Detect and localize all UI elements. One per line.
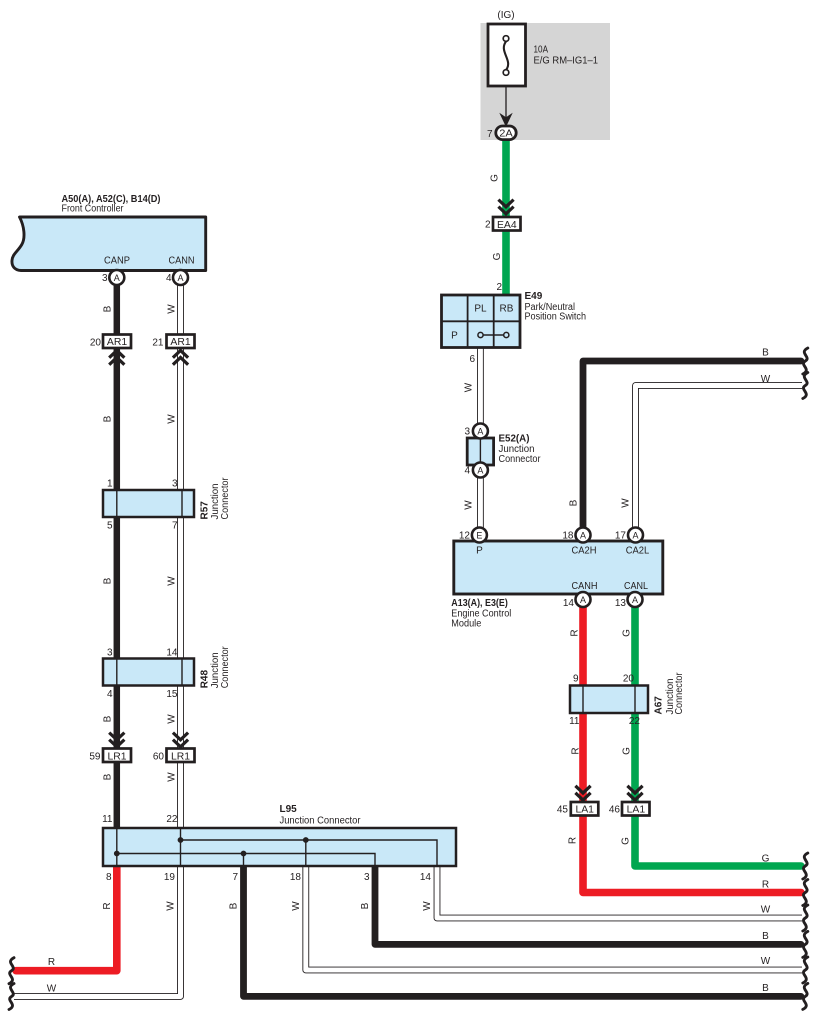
- pin 18 circle A: [576, 528, 591, 543]
- wire: B black ECM pin18 up and right to edge break: [583, 361, 801, 534]
- svg-text:7: 7: [487, 129, 493, 140]
- pin 13 circle A: [628, 592, 643, 607]
- svg-text:AR1: AR1: [107, 337, 127, 348]
- svg-text:A: A: [114, 273, 120, 283]
- svg-text:W: W: [166, 901, 177, 911]
- svg-text:A: A: [632, 530, 638, 540]
- junction dot pin22/bus: [178, 837, 184, 843]
- svg-text:18: 18: [562, 531, 574, 542]
- svg-text:Front Controller: Front Controller: [62, 204, 125, 215]
- break left W 996: [9, 984, 14, 1010]
- svg-text:B: B: [762, 348, 769, 359]
- svg-text:18: 18: [290, 872, 302, 883]
- break right W 969: [803, 957, 808, 983]
- svg-text:22: 22: [629, 716, 641, 727]
- svg-text:B: B: [102, 773, 113, 780]
- svg-text:B: B: [102, 715, 113, 722]
- connector 59 LR1: [103, 749, 131, 763]
- svg-text:59: 59: [89, 752, 101, 763]
- svg-text:3: 3: [172, 479, 178, 490]
- svg-text:CANN: CANN: [169, 256, 195, 267]
- svg-text:R: R: [568, 837, 579, 844]
- pin 7 oval 2A: [496, 126, 516, 140]
- svg-text:4: 4: [464, 466, 470, 477]
- solid arrow into pin 7: [499, 113, 512, 127]
- svg-text:A: A: [477, 465, 483, 475]
- wire: W white E52 pin4 to ECM pin12: [477, 475, 484, 534]
- break left R 970.7: [9, 958, 14, 984]
- svg-text:R: R: [102, 902, 113, 909]
- svg-text:E52(A): E52(A): [499, 434, 530, 445]
- svg-text:12: 12: [459, 531, 471, 542]
- svg-text:R: R: [762, 880, 769, 891]
- chevron up into AR1 21: [173, 351, 188, 365]
- svg-text:CANL: CANL: [624, 581, 648, 592]
- svg-text:W: W: [167, 414, 178, 424]
- wire: B black front controller CANP pin3 down to L95 pin11: [114, 284, 121, 828]
- wire: W white E49 pin6 to E52 pin3: [477, 347, 484, 426]
- svg-text:45: 45: [557, 805, 569, 816]
- svg-text:LR1: LR1: [171, 751, 190, 762]
- svg-text:3: 3: [107, 648, 113, 659]
- svg-text:8: 8: [106, 872, 112, 883]
- svg-text:E/G RM–IG1–1: E/G RM–IG1–1: [534, 56, 599, 67]
- connector 21 AR1: [167, 335, 195, 349]
- junction dot pin11/bus: [114, 851, 120, 857]
- svg-text:A13(A), E3(E): A13(A), E3(E): [451, 598, 508, 609]
- svg-text:W: W: [621, 498, 632, 508]
- wire: B black L95 pin7 down and right to edge break: [244, 866, 802, 996]
- svg-text:G: G: [622, 747, 633, 755]
- wire: W white L95 pin19 down and left to edge break: [14, 866, 181, 997]
- svg-text:A67: A67: [654, 696, 665, 715]
- pin 4 circle A CANN: [173, 270, 188, 285]
- svg-text:E: E: [476, 530, 482, 540]
- svg-text:9: 9: [573, 674, 579, 685]
- svg-text:W: W: [47, 984, 57, 995]
- svg-text:11: 11: [102, 814, 113, 825]
- svg-text:14: 14: [166, 648, 178, 659]
- wire: G green vertical from 2A to E49 pin2: [502, 136, 510, 296]
- svg-text:B: B: [229, 902, 240, 909]
- svg-text:W: W: [464, 382, 475, 392]
- svg-text:4: 4: [107, 689, 113, 700]
- svg-text:1: 1: [107, 479, 113, 490]
- pin 12 circle E: [472, 528, 487, 543]
- svg-text:14: 14: [563, 598, 575, 609]
- svg-text:B: B: [762, 983, 769, 994]
- svg-text:LR1: LR1: [107, 751, 126, 762]
- connector 60 LR1: [167, 749, 195, 763]
- wire: thin fuse lead: [505, 74, 507, 119]
- internal wire pin22-pin19: [180, 828, 182, 866]
- svg-text:(IG): (IG): [497, 10, 514, 21]
- svg-text:2: 2: [485, 220, 491, 231]
- svg-text:Module: Module: [451, 618, 481, 629]
- svg-text:EA4: EA4: [497, 220, 517, 231]
- wire: R red ECM CANH pin14 down through A67 to LA1 then right edge: [583, 600, 801, 893]
- svg-text:A: A: [580, 595, 586, 605]
- svg-text:W: W: [167, 304, 178, 314]
- svg-text:3: 3: [102, 273, 108, 284]
- ECM A13(A) E3(E) engine control module: [454, 541, 663, 594]
- svg-text:B: B: [569, 499, 580, 506]
- break right B 361: [803, 348, 808, 374]
- svg-text:10A: 10A: [534, 45, 549, 56]
- front controller A50(A) A52(C) B14(D): [12, 217, 206, 271]
- chevron into LA1 45: [575, 786, 590, 800]
- svg-text:Junction Connector: Junction Connector: [280, 816, 362, 827]
- svg-text:R: R: [571, 747, 582, 754]
- svg-text:19: 19: [164, 872, 176, 883]
- svg-text:20: 20: [623, 674, 635, 685]
- svg-text:A: A: [177, 273, 183, 283]
- svg-text:13: 13: [615, 598, 627, 609]
- internal wire to pin7: [243, 854, 245, 867]
- svg-text:15: 15: [166, 689, 178, 700]
- wire: R red L95 pin8 down and left to edge break: [16, 866, 117, 971]
- svg-text:LA1: LA1: [575, 804, 594, 815]
- junction dot pin18/bus: [303, 837, 309, 843]
- svg-text:P: P: [451, 331, 458, 342]
- svg-text:CA2H: CA2H: [572, 546, 597, 557]
- break right W 385.5: [803, 373, 808, 399]
- pin 17 circle A: [628, 528, 643, 543]
- svg-text:L95: L95: [280, 804, 298, 815]
- svg-text:P: P: [476, 546, 483, 557]
- svg-text:B: B: [102, 415, 113, 422]
- svg-text:CA2L: CA2L: [626, 546, 650, 557]
- svg-text:B: B: [762, 931, 769, 942]
- svg-text:W: W: [761, 374, 771, 385]
- connector 46 LA1: [622, 802, 650, 816]
- svg-text:R: R: [570, 629, 581, 636]
- pin 4 circle A of E52: [473, 463, 488, 478]
- svg-text:17: 17: [615, 531, 627, 542]
- svg-text:W: W: [761, 905, 771, 916]
- break right B 944: [803, 931, 808, 957]
- svg-text:Connector: Connector: [220, 646, 231, 689]
- svg-text:7: 7: [172, 521, 178, 532]
- svg-text:A: A: [477, 426, 483, 436]
- break right W 915: [803, 905, 808, 931]
- chevron into LR1 59: [109, 733, 124, 747]
- chevron into LA1 46: [627, 786, 642, 800]
- pin 3 circle A CANP: [109, 270, 124, 285]
- svg-text:E49: E49: [525, 291, 543, 302]
- pin 3 circle A of E52: [473, 424, 488, 439]
- svg-text:W: W: [761, 956, 771, 967]
- internal wire to pin18: [305, 840, 307, 866]
- svg-text:Connector: Connector: [674, 672, 685, 715]
- svg-text:W: W: [167, 576, 178, 586]
- wire: B black L95 pin3 down and right to edge break: [375, 866, 801, 944]
- svg-text:W: W: [167, 714, 178, 724]
- svg-text:Position Switch: Position Switch: [525, 312, 587, 323]
- wire: W white L95 pin18 down and right to edge break: [306, 866, 802, 970]
- internal bus upper W: [181, 840, 438, 866]
- connector 20 AR1: [103, 335, 131, 349]
- svg-text:3: 3: [464, 427, 470, 438]
- wire: G green ECM CANL pin13 down through A67 to LA1 then right edge: [635, 600, 801, 866]
- svg-text:A: A: [580, 530, 586, 540]
- junction connector R48: [103, 659, 194, 686]
- svg-text:14: 14: [420, 872, 432, 883]
- svg-text:3: 3: [364, 872, 370, 883]
- junction connector A67: [570, 686, 648, 714]
- pin 14 circle A: [576, 592, 591, 607]
- svg-text:G: G: [762, 854, 770, 865]
- svg-text:CANH: CANH: [572, 581, 598, 592]
- svg-text:B: B: [102, 305, 113, 312]
- switch E49 park/neutral position switch: [442, 295, 521, 348]
- svg-text:LA1: LA1: [627, 804, 646, 815]
- svg-text:20: 20: [90, 338, 102, 349]
- internal bus lower B: [117, 854, 375, 867]
- svg-text:CANP: CANP: [104, 256, 130, 267]
- svg-text:R48: R48: [199, 670, 210, 689]
- svg-text:60: 60: [153, 752, 165, 763]
- svg-text:46: 46: [609, 805, 621, 816]
- svg-text:21: 21: [152, 338, 164, 349]
- svg-text:2A: 2A: [499, 128, 513, 139]
- svg-text:G: G: [622, 629, 633, 637]
- svg-text:2: 2: [496, 282, 502, 293]
- junction connector L95: [103, 828, 456, 866]
- chevron into LR1 60: [173, 733, 188, 747]
- fuse 10A E/G RM-IG1-1: [488, 24, 526, 86]
- wire: W white L95 pin14 down and right to edge break: [437, 866, 802, 918]
- svg-text:4: 4: [166, 273, 172, 284]
- svg-text:G: G: [621, 837, 632, 845]
- junction connector R57: [103, 490, 194, 517]
- svg-text:Connector: Connector: [499, 454, 542, 465]
- wire: W white ECM pin17 up and right to edge break: [636, 386, 803, 535]
- junction dot pin7/bus: [241, 851, 247, 857]
- svg-text:W: W: [422, 901, 433, 911]
- svg-text:11: 11: [569, 716, 580, 727]
- break right R 891: [803, 880, 808, 906]
- connector EA4: [493, 217, 521, 231]
- svg-text:W: W: [167, 772, 178, 782]
- svg-text:AR1: AR1: [170, 337, 190, 348]
- svg-text:G: G: [490, 174, 501, 182]
- svg-text:R57: R57: [199, 501, 210, 520]
- svg-text:B: B: [102, 577, 113, 584]
- wire: W white front controller CANN pin4 down to L95 pin22: [177, 284, 184, 828]
- svg-text:G: G: [492, 252, 503, 260]
- break right G 863.5: [803, 853, 808, 879]
- svg-text:Connector: Connector: [220, 477, 231, 520]
- svg-text:A: A: [632, 595, 638, 605]
- svg-text:B: B: [360, 902, 371, 909]
- svg-text:PL: PL: [474, 304, 487, 315]
- svg-text:W: W: [464, 500, 475, 510]
- svg-text:W: W: [291, 901, 302, 911]
- junction connector E52(A): [467, 438, 493, 465]
- relay block shading (gray box): [481, 23, 611, 140]
- connector 45 LA1: [571, 802, 599, 816]
- internal wire pin11-pin8: [116, 828, 118, 866]
- svg-text:6: 6: [469, 354, 475, 365]
- svg-text:R: R: [48, 957, 55, 968]
- svg-text:5: 5: [107, 521, 113, 532]
- svg-text:22: 22: [166, 814, 178, 825]
- svg-text:RB: RB: [500, 304, 514, 315]
- svg-text:7: 7: [232, 872, 238, 883]
- chevron into EA4: [498, 200, 513, 214]
- chevron up into AR1 20: [109, 351, 124, 365]
- break right B 997.5: [803, 983, 808, 1009]
